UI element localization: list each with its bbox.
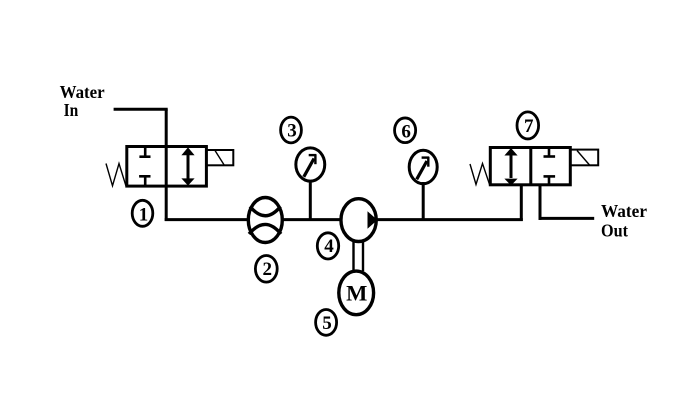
valve V1 solenoid xyxy=(206,150,233,165)
svg-text:In: In xyxy=(64,100,79,120)
node label 4 xyxy=(317,233,338,259)
wire: Water Out horizontal xyxy=(539,217,595,220)
valve V7 centre divider xyxy=(529,148,532,185)
node label 5 xyxy=(316,310,337,336)
valve V7 body xyxy=(490,148,570,185)
svg-text:7: 7 xyxy=(524,116,534,137)
svg-text:1: 1 xyxy=(139,205,149,226)
valve V1 closed-position top port T xyxy=(139,147,150,157)
node label 7 xyxy=(517,112,539,139)
node label 3 xyxy=(281,117,302,143)
svg-text:2: 2 xyxy=(263,259,273,280)
valve V1 return spring xyxy=(106,164,126,187)
valve V1 body xyxy=(127,147,207,187)
valve V7 closed-position bottom port T xyxy=(544,176,556,184)
valve V7 solenoid xyxy=(570,150,598,166)
wire: gauge G3 stem xyxy=(309,181,312,220)
wire: flow meter to pump xyxy=(282,218,342,221)
valve V1 open-position double arrow xyxy=(181,147,194,185)
motor shaft coupling xyxy=(354,240,364,271)
svg-text:Out: Out xyxy=(601,221,629,241)
pressure gauge G3 xyxy=(296,148,325,181)
wire: valve V7 inlet stub xyxy=(520,185,523,221)
wire: Water In horizontal xyxy=(114,108,168,111)
svg-text:3: 3 xyxy=(287,121,297,142)
svg-text:4: 4 xyxy=(324,236,334,257)
valve V7 closed-position top port T xyxy=(544,148,556,157)
valve V7 open-position double arrow xyxy=(504,148,517,186)
valve V7 return spring xyxy=(470,164,490,186)
node label 2 xyxy=(255,255,277,282)
pump P xyxy=(341,199,377,242)
node label 1 xyxy=(132,200,153,226)
svg-text:M: M xyxy=(346,280,367,305)
valve V1 closed-position bottom port T xyxy=(139,176,150,186)
svg-text:5: 5 xyxy=(322,313,332,334)
wire: valve V7 outlet stub xyxy=(539,185,542,220)
node label 6 xyxy=(395,118,416,143)
svg-text:6: 6 xyxy=(401,121,411,142)
pressure gauge G6 xyxy=(409,150,437,183)
svg-text:Water: Water xyxy=(601,201,647,221)
wire: pump to valve V7 inlet xyxy=(376,218,523,221)
flow meter FM xyxy=(248,198,282,243)
motor M xyxy=(339,271,374,315)
svg-text:Water: Water xyxy=(60,82,105,102)
wire: inlet vertical through valve V1 xyxy=(165,109,168,221)
wire: gauge G6 stem xyxy=(422,182,425,220)
wire: main pipe from valve V1 to flow meter xyxy=(165,218,249,221)
